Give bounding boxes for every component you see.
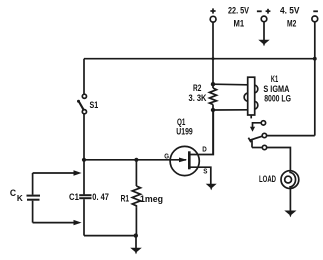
switch S1: [82, 94, 86, 98]
relay contact bottom circle: [262, 145, 266, 149]
ground under R1: [130, 248, 142, 255]
capacitor CK plates: [27, 195, 41, 197]
relay coil bump left: [244, 93, 248, 101]
relay contact mid circle: [262, 133, 266, 137]
svg-text:S1: S1: [90, 100, 99, 110]
relay coil bottom stub: [250, 115, 252, 118]
ground under load: [284, 211, 296, 218]
armature pivot tick: [248, 138, 251, 143]
svg-text:U199: U199: [176, 127, 192, 137]
capacitor CK left vertical bottom: [32, 201, 34, 223]
svg-text:8000 LG: 8000 LG: [264, 94, 291, 104]
node rail-M1 junction: [212, 57, 215, 60]
ground under source: [206, 184, 217, 191]
transistor source lead: [191, 167, 211, 184]
node R2 bottom: [211, 108, 215, 112]
resistor R2 rail upper: [212, 59, 214, 88]
node R1 bottom: [134, 233, 138, 237]
wire contact to -4.5 rail: [267, 135, 315, 137]
svg-text:S: S: [203, 166, 207, 175]
svg-text:4. 5V: 4. 5V: [280, 5, 300, 15]
wire contact to load: [267, 148, 291, 172]
node rail-M2 junction: [313, 57, 317, 61]
relay contact top circle: [261, 121, 265, 125]
transistor Q1 circle: [170, 146, 199, 175]
label + of M1: [210, 8, 215, 13]
svg-text:K: K: [17, 194, 23, 203]
svg-text:0. 47: 0. 47: [92, 192, 109, 202]
capacitor CK left vertical top: [32, 173, 34, 195]
label + of M2: [266, 9, 271, 14]
wire top rail: [84, 58, 315, 60]
relay armature: [250, 136, 262, 140]
wire rail to drain: [212, 105, 214, 155]
svg-text:22. 5V: 22. 5V: [228, 5, 249, 15]
wire gate line: [84, 159, 186, 161]
svg-text:LOAD: LOAD: [259, 174, 276, 184]
svg-text:K1: K1: [271, 74, 278, 84]
svg-text:S IGMA: S IGMA: [263, 84, 289, 94]
relay coil bump right top: [255, 85, 258, 93]
wire bottom rail: [84, 235, 136, 237]
svg-text:D: D: [202, 145, 207, 154]
capacitor CK bottom wire: [33, 222, 75, 224]
wire left rail: [83, 59, 85, 94]
resistor R1 zigzag: [132, 186, 140, 207]
svg-text:R2: R2: [193, 83, 201, 93]
label - of M1: [257, 10, 262, 12]
svg-text:3. 3K: 3. 3K: [189, 93, 207, 103]
wire coil top link: [213, 83, 248, 86]
node R1 top: [134, 158, 138, 162]
node R2 top: [211, 82, 215, 86]
wire right rail: [314, 22, 316, 136]
capacitor C1: [79, 194, 91, 196]
load symbol: [281, 171, 299, 189]
svg-text:M1: M1: [234, 19, 245, 29]
wire load to ground: [289, 189, 291, 211]
capacitor CK top wire: [33, 172, 75, 174]
resistor R1 lead bottom: [135, 207, 137, 235]
terminal common M1-/M2+: [261, 16, 267, 22]
node gate junction: [82, 158, 86, 162]
resistor R1 lead top: [135, 160, 137, 186]
label - of M2: [313, 10, 318, 12]
terminal - of M2: [312, 16, 318, 22]
wire M1 lead: [212, 22, 214, 59]
svg-text:1meg: 1meg: [140, 194, 163, 204]
transistor channel bar: [188, 151, 191, 169]
svg-text:C: C: [10, 188, 17, 198]
terminal + of M1: [210, 16, 216, 22]
ground common: [258, 40, 269, 47]
wire coil bottom link: [213, 109, 248, 111]
relay coil bump right bottom: [255, 101, 258, 109]
resistor R2 zigzag: [210, 88, 217, 105]
svg-text:Q1: Q1: [177, 117, 185, 127]
wire common ground lead: [263, 22, 265, 40]
svg-text:M2: M2: [287, 19, 296, 29]
wire below C1: [83, 199, 85, 235]
wire pivot down: [251, 140, 253, 147]
svg-text:C1: C1: [69, 192, 79, 202]
wire to bottom contact: [252, 147, 262, 149]
transistor gate arrow: [179, 158, 187, 163]
relay K1 coil body: [248, 77, 255, 115]
transistor drain lead: [191, 110, 214, 155]
svg-text:G: G: [164, 152, 169, 161]
wire below S1: [83, 114, 85, 195]
relay actuate link: [253, 123, 262, 127]
svg-text:R1: R1: [121, 194, 129, 204]
wire R1 ground lead: [135, 236, 137, 248]
